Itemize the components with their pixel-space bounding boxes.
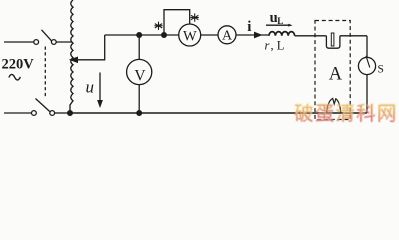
switch S1a contact circle left (34, 40, 39, 45)
wattmeter W (179, 24, 201, 46)
svg-text:L: L (277, 16, 283, 26)
autotransformer T winding (70, 0, 73, 112)
svg-text:V: V (134, 67, 146, 84)
switch S1b blade (36, 99, 50, 112)
arrow u reference direction (99, 73, 101, 102)
svg-text:W: W (183, 29, 197, 45)
switch link dashed line (44, 47, 46, 97)
wire top-left source lead (4, 41, 34, 43)
galvanometer S (358, 57, 375, 74)
wire wiper arm (77, 35, 105, 60)
autotransformer wiper arrow (69, 57, 78, 64)
wire switch to bottom rail (55, 112, 68, 114)
wire load to heater element (295, 35, 327, 37)
svg-text:220V: 220V (2, 57, 35, 73)
svg-text:i: i (247, 19, 251, 35)
wire switch to autotransformer top tap (56, 41, 72, 43)
wire wattmeter to ammeter (201, 34, 218, 36)
switch S1a contact circle right (51, 40, 56, 45)
wire corner down to S (366, 36, 368, 58)
svg-text:u: u (86, 77, 95, 96)
svg-text:A: A (222, 29, 233, 44)
switch S1a blade (42, 30, 52, 41)
asterisk polarity mark left (154, 22, 162, 30)
wire voltmeter upper lead (138, 35, 140, 59)
asterisk polarity mark right (191, 13, 199, 21)
wire top rail left section (105, 34, 179, 36)
arrow uL reference direction (266, 24, 290, 26)
svg-text:S: S (378, 64, 384, 76)
svg-text:, L: , L (271, 39, 285, 53)
wire S lower lead (366, 75, 368, 113)
heater coil arch bottom (327, 98, 341, 112)
junction dot bottom of transformer (67, 110, 73, 116)
ammeter A1 (218, 26, 236, 44)
thermocouple bar (331, 33, 334, 46)
node voltmeter tap bottom (136, 110, 142, 116)
watermark (294, 103, 399, 128)
arrow current direction (254, 32, 263, 39)
node voltmeter tap top (136, 32, 142, 38)
label AC tilde (9, 74, 21, 80)
wire voltmeter lower lead (138, 85, 140, 113)
wire ammeter to load (236, 34, 269, 36)
heater trough element (326, 36, 340, 48)
switch S1b contact circle left (32, 111, 37, 116)
svg-text:A: A (329, 64, 343, 84)
dashed box thermo-ammeter A2 (315, 21, 350, 120)
wire bottom rail (70, 112, 367, 114)
inductor r,L coil (269, 32, 295, 36)
node wattmeter current-coil junction (161, 32, 167, 38)
wire heater to corner (340, 35, 367, 37)
wire bottom-left source lead (4, 112, 31, 114)
voltmeter V (127, 59, 152, 84)
wire wattmeter current coil loop (164, 10, 190, 35)
switch S1b contact circle right (50, 111, 55, 116)
svg-text:r: r (265, 39, 270, 53)
